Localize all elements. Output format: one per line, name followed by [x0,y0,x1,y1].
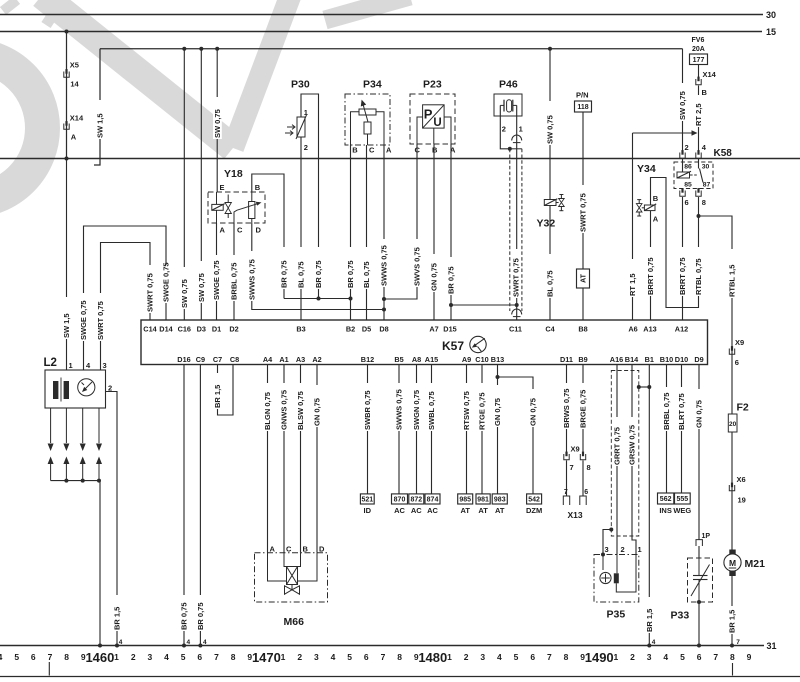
svg-text:Y34: Y34 [637,163,656,175]
svg-text:1: 1 [69,361,73,370]
sensor P33 box [688,558,713,602]
label SWBL 0,75 [427,383,436,431]
wire 15 supply rail [0,31,762,33]
svg-text:5: 5 [514,652,519,662]
motor M66 box [255,553,328,602]
alternator L2 regulator symbol [78,379,95,396]
svg-text:31: 31 [767,641,777,651]
svg-text:GN 0,75: GN 0,75 [313,398,322,426]
label RTGE 0,75 [478,383,487,431]
svg-text:1490: 1490 [585,650,614,665]
svg-text:SWVS 0,75: SWVS 0,75 [413,247,422,286]
svg-text:D10: D10 [675,355,688,364]
label BR 0,75 [314,247,323,289]
svg-text:RTBL 1,5: RTBL 1,5 [728,265,737,297]
label BR 1,5 [113,595,122,631]
svg-text:GNWS 0,75: GNWS 0,75 [280,390,289,430]
svg-text:D2: D2 [229,325,238,334]
svg-text:D8: D8 [379,325,388,334]
wire shield to P35 pin 3 [603,530,611,555]
wire BR 1,5 C7-C8 jumper [218,365,234,416]
svg-text:C4: C4 [545,325,555,334]
svg-text:4: 4 [331,652,336,662]
svg-text:6: 6 [735,358,739,367]
svg-text:K57: K57 [442,339,464,353]
label RT 2,5 [694,95,703,127]
svg-text:983: 983 [494,497,506,504]
svg-text:SW 0,75: SW 0,75 [213,109,222,138]
valve Y18 internal stubs [216,210,218,223]
ECU K57 symbol [470,336,486,352]
valve Y18 coil [212,204,223,210]
svg-text:A: A [653,215,659,224]
svg-text:BR 0,75: BR 0,75 [314,260,323,288]
svg-text:P46: P46 [499,79,518,91]
svg-text:B: B [653,194,659,203]
svg-text:GN 0,75: GN 0,75 [695,400,704,428]
diode arrow pair 4 under L2 [98,408,100,443]
wire SWWS 0,75 B5 to AC [398,365,400,495]
svg-text:GN 0,75: GN 0,75 [529,398,538,426]
svg-text:D: D [319,545,325,554]
connector K58 pin 6 [680,191,685,197]
svg-text:INS: INS [659,506,672,515]
node junction D3 tap [199,47,203,51]
shield screen of P46 lead [510,148,522,150]
label GN 0,75 [313,385,322,427]
node junction Y18 tap [215,47,219,51]
label BRBL 0,75 [662,387,671,431]
wire ignition feed line [100,48,683,50]
wire SW 1,5 drop [99,49,101,159]
relay K58 coil [677,172,690,178]
svg-text:A: A [270,545,276,554]
alternator L2 battery bars [53,381,58,399]
valve Y18 valve symbol [225,203,231,214]
label SWGN 0,75 [412,383,421,431]
svg-text:A: A [386,146,392,155]
svg-text:7: 7 [570,463,574,472]
sensor P35 internal wires [602,555,604,571]
svg-text:2: 2 [297,652,302,662]
svg-text:B12: B12 [361,355,374,364]
svg-text:6: 6 [530,652,535,662]
svg-text:7: 7 [736,639,740,646]
svg-text:118: 118 [577,104,588,111]
ref box 562 INS [658,493,674,504]
relay K58 link [690,174,698,176]
wire BLGN 0,75 A4 to M66-A [267,365,269,553]
svg-text:M21: M21 [745,558,766,570]
wire BRWS 0,75 D11 to X9-7 [566,365,568,455]
svg-text:BLRT 0,75: BLRT 0,75 [677,393,686,430]
svg-text:X13: X13 [567,510,582,520]
wire SWRT 0,75 P/N to B8 [582,112,584,320]
svg-text:521: 521 [361,497,373,504]
svg-text:C8: C8 [230,355,239,364]
node junction pin8 split [697,214,701,218]
svg-text:BRBL 0,75: BRBL 0,75 [230,263,239,300]
svg-text:RTGE 0,75: RTGE 0,75 [478,392,487,430]
svg-text:P/N: P/N [576,91,589,100]
ref box 555 WEG [675,493,691,504]
svg-text:C7: C7 [213,355,222,364]
wire RTSW 0,75 A9 to AT [466,365,468,495]
wire RT 1,5 to K57 A6 [632,133,634,320]
label BRRT 0,75 [678,247,687,296]
svg-text:7: 7 [48,652,53,662]
signal ref box AT [577,269,590,288]
svg-text:872: 872 [410,497,422,504]
wire D11 to X13-7 [566,460,568,496]
svg-text:A16: A16 [610,355,623,364]
svg-text:562: 562 [660,496,672,503]
wire SW 0,75 to Y18 pin E [216,49,218,192]
svg-text:985: 985 [459,497,471,504]
svg-text:8: 8 [64,652,69,662]
svg-text:AT: AT [478,506,488,515]
label GRSW 0,75 [628,417,637,466]
wire fuse to X14-B [698,65,700,80]
wire GN 0,75 A2 to M66-D [316,365,318,553]
wire BLRT 0,75 D10 to WEG [681,365,683,494]
wire SWBR 0,75 B12 to ID [367,365,369,495]
svg-text:D9: D9 [694,355,703,364]
wire branch to A6 [633,132,694,134]
svg-text:A1: A1 [279,355,288,364]
svg-text:1P: 1P [702,533,711,540]
wire BR 0,75 D16 to ground [183,365,185,646]
svg-text:3: 3 [605,545,609,554]
svg-text:1: 1 [638,545,642,554]
svg-text:86: 86 [684,163,692,170]
ECU K57 box [141,320,708,365]
connector K58 pin 8 [696,191,701,197]
wire SW 0,75 to K58 pin 2 [682,49,684,152]
svg-text:8: 8 [397,652,402,662]
svg-text:C14: C14 [143,325,157,334]
svg-text:SWGE 0,75: SWGE 0,75 [162,262,171,302]
svg-text:B: B [255,183,261,192]
node junction on ignition bus [65,157,69,161]
svg-text:RTSW 0,75: RTSW 0,75 [462,391,471,430]
svg-text:A8: A8 [412,355,421,364]
wire battery feed X5/X14 [66,32,68,159]
svg-text:WEG: WEG [673,506,691,515]
svg-text:SW 0,75: SW 0,75 [546,115,555,144]
svg-text:30: 30 [766,10,776,20]
diode arrow pair 2 under L2 [65,408,67,443]
svg-text:1460: 1460 [85,650,114,665]
wire BRBL 0,75 Y18-C to D2 [233,223,235,320]
diode arrow pair 1 under L2 [50,408,52,443]
svg-text:7: 7 [381,652,386,662]
svg-text:C: C [237,226,243,235]
label SWWS 0,75 [248,251,257,301]
wire 30 supply rail [0,14,763,16]
svg-text:BL 0,75: BL 0,75 [297,261,306,288]
svg-text:6: 6 [197,652,202,662]
svg-text:D16: D16 [177,355,190,364]
svg-text:K58: K58 [714,148,733,159]
svg-text:B14: B14 [625,355,639,364]
svg-text:BR 0,75: BR 0,75 [196,602,205,630]
svg-text:1470: 1470 [252,650,281,665]
ref box 985 AT [458,494,473,504]
ref box 983 AT [492,494,507,504]
label SW 0,75 [213,97,222,139]
svg-text:A3: A3 [296,355,305,364]
solenoid Y34 valve [636,204,642,212]
svg-text:SWWS 0,75: SWWS 0,75 [395,389,404,430]
label SW 0,75 [197,261,206,303]
svg-text:1: 1 [447,652,452,662]
svg-text:RTBL 0,75: RTBL 0,75 [694,258,703,295]
sensor P30 frame [301,94,319,299]
valve Y32 valve symbol [559,199,565,207]
label RTBL 0,75 [694,247,703,296]
svg-text:A7: A7 [429,325,438,334]
svg-text:B8: B8 [578,325,587,334]
svg-text:SW 0,75: SW 0,75 [197,273,206,302]
wire BR 1,5 M21 to ground [731,576,733,646]
label GNWS 0,75 [280,383,289,431]
svg-text:6: 6 [697,652,702,662]
svg-text:B2: B2 [346,325,355,334]
svg-text:BRRT 0,75: BRRT 0,75 [646,257,655,295]
label SWRT 0,75 [579,185,588,233]
wire ignition distribution bus [0,158,800,160]
svg-text:4: 4 [652,639,656,646]
svg-text:6: 6 [364,652,369,662]
svg-text:A15: A15 [425,355,438,364]
relay K58 contact 30-87 [700,169,704,183]
svg-text:6: 6 [584,489,588,496]
motor M66 valve [285,586,293,594]
ref box 981 AT [476,494,490,504]
ref box 874 AC [425,494,440,504]
svg-text:C9: C9 [196,355,205,364]
wire BRBL 0,75 B10 to INS [666,365,668,494]
svg-text:20A: 20A [692,46,705,53]
svg-text:B3: B3 [296,325,305,334]
svg-text:BR 0,75: BR 0,75 [447,266,456,294]
node junction Y32 tap [548,47,552,51]
svg-text:SWRT 0,75: SWRT 0,75 [579,193,588,232]
svg-text:A: A [71,132,77,141]
node feed arrow into RT wire [692,130,698,135]
svg-text:85: 85 [684,182,692,189]
ref box 872 AC [409,494,424,504]
svg-text:L2: L2 [44,357,57,369]
svg-text:C: C [369,146,375,155]
label BR 0,75 [280,247,289,289]
sensor P34 resistor [359,109,376,115]
svg-text:BR 1,5: BR 1,5 [645,609,654,632]
wire SW 1,5 to L2 pin 1 [66,159,68,371]
svg-text:SWRT 0,75: SWRT 0,75 [146,273,155,312]
wire BR 0,75 C9 to ground [199,365,201,646]
wire SWWS 0,75 P34-A to D8 [383,145,385,320]
connector K58 pin 2 [680,153,685,159]
svg-text:RT 2,5: RT 2,5 [694,103,703,126]
svg-text:BR 0,75: BR 0,75 [180,602,189,630]
label GN 0,75 [529,389,538,427]
node junction X5 feed on rail 15 [65,30,69,34]
svg-text:SWRT 0,75: SWRT 0,75 [512,258,521,297]
valve Y18 wiper arrow [234,210,237,216]
connector X9 pin 7 [564,454,569,460]
label SWRT 0,75 [146,265,155,313]
wire GN 0,75 D9 to P33 [698,365,700,540]
svg-text:C11: C11 [509,325,522,334]
svg-text:DZM: DZM [526,506,542,515]
svg-text:SWGE 0,75: SWGE 0,75 [79,300,88,340]
motor M66 stepper [287,567,298,585]
svg-text:X6: X6 [737,475,746,484]
svg-text:P30: P30 [291,79,310,91]
wire SWGE 0,75 D14 loop [84,226,167,370]
svg-text:3: 3 [647,652,652,662]
label SW 0,75 [180,267,189,309]
svg-text:GRRT 0,75: GRRT 0,75 [613,427,622,465]
wire BR 1,5 L2 pin2 to ground [106,392,118,646]
svg-text:7: 7 [214,652,219,662]
label BR 1,5 [213,373,222,409]
sensor P34 wiper arrow [363,104,368,123]
sensor P23 body [423,105,445,128]
node junction C16 tap [182,47,186,51]
wire GN 0,75 B13 to AT [497,365,499,495]
svg-text:1: 1 [281,652,286,662]
label SW 0,75 [546,101,555,145]
valve Y32 link [556,202,559,204]
wire B9 to X13-6 [582,460,584,496]
label BL 0,75 [546,254,555,298]
svg-text:BR 1,5: BR 1,5 [728,610,737,633]
wire SW 0,75 to C16 [183,49,185,320]
svg-text:2: 2 [502,125,506,134]
shield screen around sensor pair [611,371,639,537]
svg-text:20: 20 [729,421,737,428]
wire K58 pin 8 down [698,197,700,216]
svg-text:4: 4 [497,652,502,662]
sensor P35 core [614,573,619,583]
sensor P35 wheel [600,572,611,583]
label RTSW 0,75 [462,383,471,431]
wire SWWS 0,75 P23-C to D8 [384,144,417,299]
wire SWGE 0,75 Y18-A to D1 [216,223,218,320]
sensor P34 temp sensor [364,122,371,134]
svg-text:6: 6 [31,652,36,662]
label SWWS 0,75 [380,239,389,287]
wire RTBL 0,75 to Y34 [651,178,699,308]
svg-text:8: 8 [730,652,735,662]
svg-text:P23: P23 [423,79,442,91]
svg-text:4: 4 [663,652,668,662]
svg-text:Y32: Y32 [537,218,556,230]
svg-text:BRRT 0,75: BRRT 0,75 [678,257,687,295]
wire BR bus to B2 [284,298,351,300]
diode arrow pair 3 under L2 [82,408,84,443]
svg-text:D14: D14 [159,325,173,334]
svg-text:2: 2 [621,545,625,554]
label GN 0,75 [695,389,704,429]
wire P46 pin1 to C11 [516,105,518,320]
svg-text:SWBL 0,75: SWBL 0,75 [427,391,436,430]
svg-text:5: 5 [680,652,685,662]
svg-text:542: 542 [528,497,540,504]
wire BR 0,75 P23-A to D15 [450,144,452,320]
connector K58 pin 4 [696,153,701,159]
svg-text:SW 1,5: SW 1,5 [96,113,105,138]
svg-text:E: E [220,183,225,192]
svg-text:3: 3 [314,652,319,662]
wire BR 0,75 P34-B to B2 [350,145,352,320]
wire into P33 [698,546,700,558]
svg-text:D5: D5 [362,325,371,334]
sensor P33 element [693,575,708,577]
ref box 870 AC [392,494,408,504]
svg-text:D15: D15 [443,325,456,334]
label SWGE 0,75 [79,293,88,341]
svg-text:2: 2 [304,143,308,152]
wire Y18-B to P30 junction [252,174,284,299]
svg-text:30: 30 [702,163,710,170]
wire SW 0,75 to D3 [200,49,202,320]
connector X14 pin A [64,124,69,130]
svg-text:1: 1 [613,652,618,662]
label BR 1,5 [728,606,737,634]
svg-text:D: D [256,226,262,235]
label RT 1,5 [628,259,637,297]
label SWRT 0,75 [512,249,521,298]
wire RTBL 1,5 branch [699,216,733,550]
wire BRRT 0,75 K58-6 to A12 [682,197,684,320]
svg-text:6: 6 [685,198,689,207]
svg-text:1: 1 [304,108,308,117]
svg-text:B: B [352,146,358,155]
svg-text:A4: A4 [263,355,273,364]
wire SWGN 0,75 A8 to AC [416,365,418,495]
wire BL 0,75 Y32 to C4 [549,206,551,321]
wire SWBL 0,75 A15 to AC [431,365,433,495]
label BRGE 0,75 [579,383,588,429]
svg-text:7: 7 [547,652,552,662]
sensor P34 internal wires [351,112,360,145]
svg-text:870: 870 [394,497,406,504]
svg-text:SWWS 0,75: SWWS 0,75 [247,259,256,300]
wire RTGE 0,75 C10 to AT [481,365,483,495]
svg-text:BRWS 0,75: BRWS 0,75 [562,389,571,428]
svg-text:BRGE 0,75: BRGE 0,75 [579,390,588,428]
label SWGE 0,75 [162,265,171,303]
wire GRRT 0,75 A16 to P35-2 [616,365,618,555]
svg-text:8: 8 [587,463,591,472]
svg-text:14: 14 [70,80,79,89]
svg-text:D3: D3 [197,325,206,334]
svg-text:BRBL 0,75: BRBL 0,75 [662,393,671,430]
svg-text:1: 1 [519,125,523,134]
label SWBR 0,75 [363,383,372,431]
svg-text:GRSW 0,75: GRSW 0,75 [628,425,637,465]
svg-text:P: P [424,106,433,121]
svg-text:FV6: FV6 [692,37,705,44]
svg-text:3: 3 [480,652,485,662]
svg-text:SW 1,5: SW 1,5 [62,313,71,338]
sensor P30 LDR [297,117,305,137]
wire shield to B1 [639,386,650,388]
